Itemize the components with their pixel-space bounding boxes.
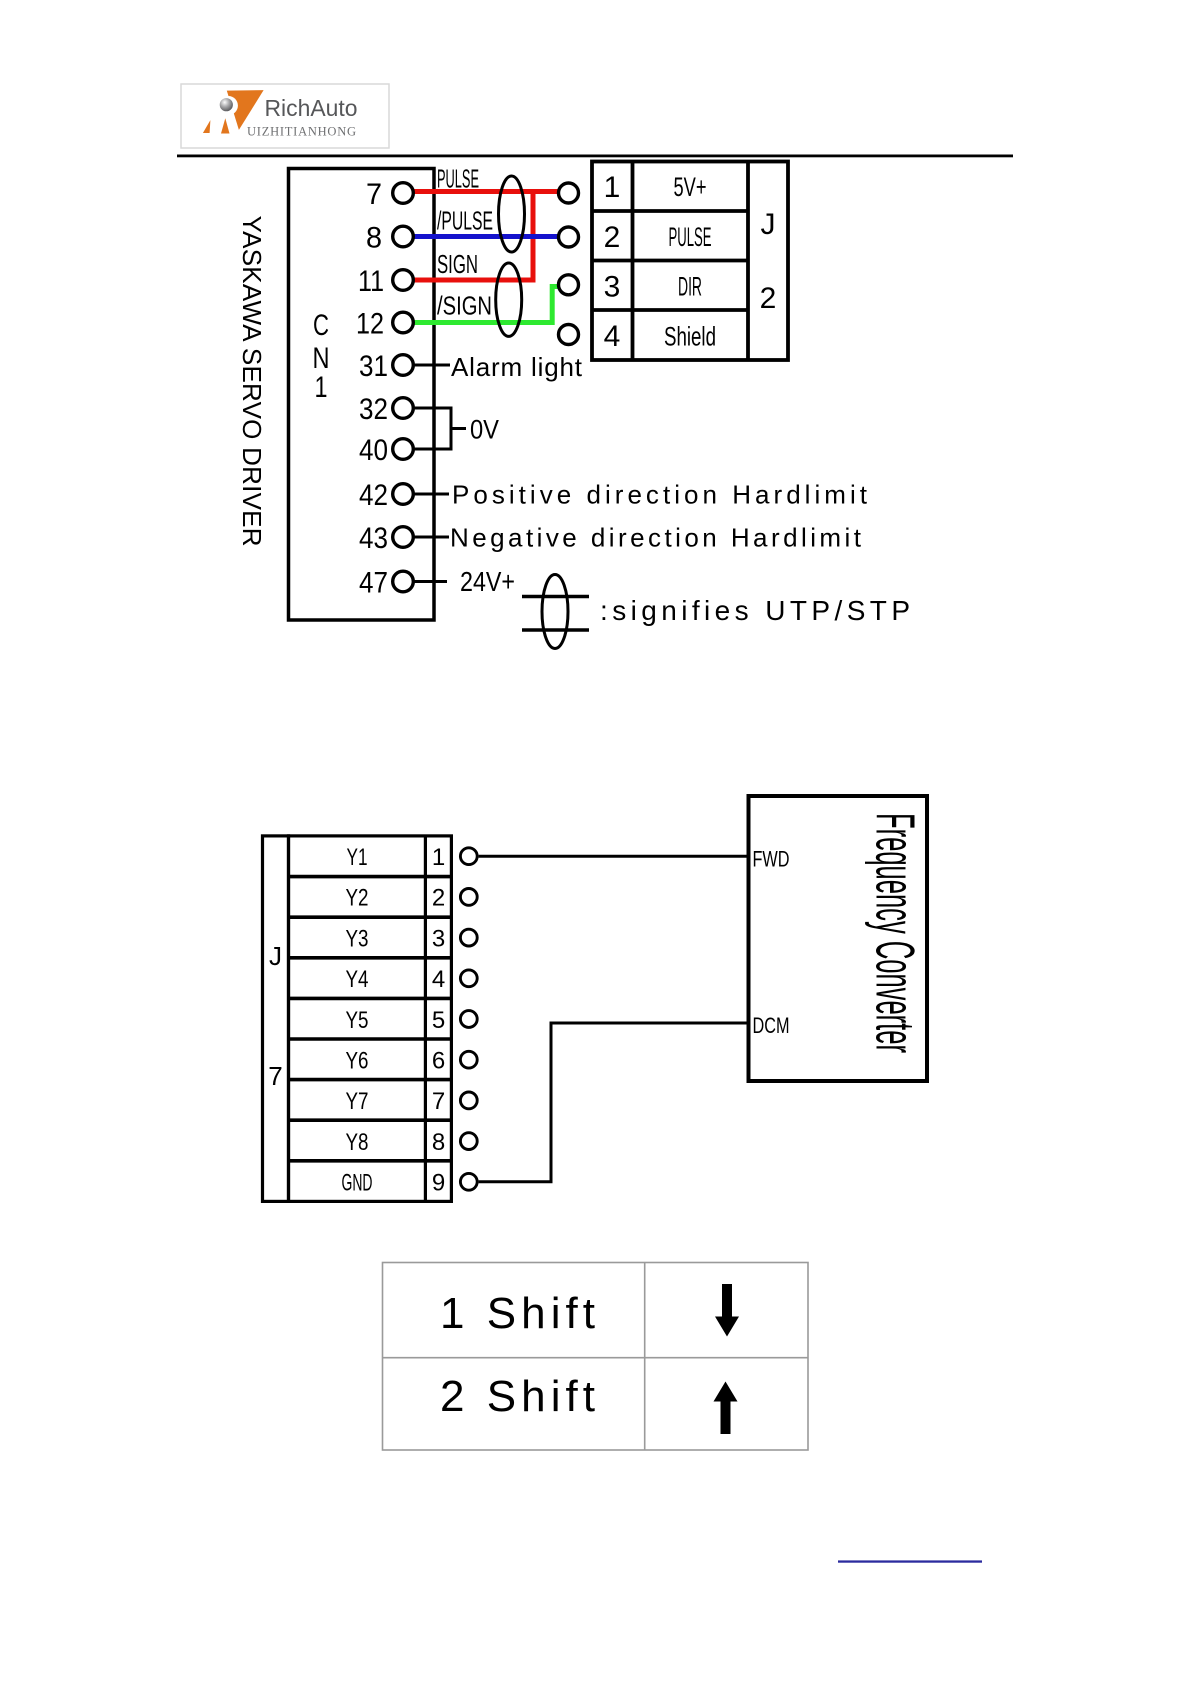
svg-text:Alarm light: Alarm light — [451, 352, 583, 382]
svg-text:1: 1 — [432, 844, 445, 871]
svg-text:31: 31 — [359, 350, 388, 383]
svg-text:8: 8 — [366, 222, 382, 255]
svg-text:42: 42 — [359, 479, 388, 512]
svg-text:J: J — [761, 208, 776, 241]
svg-text:12: 12 — [356, 308, 384, 341]
svg-text:9: 9 — [432, 1170, 445, 1197]
svg-text:Y1: Y1 — [347, 844, 368, 871]
svg-text:Y8: Y8 — [346, 1129, 369, 1156]
svg-text::signifies UTP/STP: :signifies UTP/STP — [600, 595, 910, 626]
svg-text:Y4: Y4 — [346, 966, 369, 993]
svg-text:Y5: Y5 — [346, 1007, 369, 1034]
svg-text:4: 4 — [432, 966, 445, 993]
svg-text:4: 4 — [604, 320, 621, 353]
svg-text:Y2: Y2 — [346, 885, 369, 912]
svg-text:2: 2 — [604, 221, 621, 254]
svg-text:43: 43 — [359, 522, 388, 555]
svg-text:/PULSE: /PULSE — [437, 208, 493, 236]
svg-text:11: 11 — [358, 265, 384, 298]
svg-text:3: 3 — [604, 271, 621, 304]
svg-text:40: 40 — [359, 434, 388, 467]
svg-text:0V: 0V — [470, 415, 499, 445]
svg-text:7: 7 — [268, 1061, 282, 1091]
svg-text:32: 32 — [359, 393, 388, 426]
svg-text:GND: GND — [342, 1170, 373, 1197]
svg-text:PULSE: PULSE — [437, 166, 479, 194]
svg-text:RichAuto: RichAuto — [265, 95, 358, 121]
svg-text:Y7: Y7 — [346, 1088, 369, 1115]
svg-text:7: 7 — [366, 178, 382, 211]
svg-text:Frequency Converter: Frequency Converter — [865, 813, 927, 1053]
svg-text:1: 1 — [315, 371, 328, 404]
svg-text:Negative direction Hardlimit: Negative direction Hardlimit — [450, 523, 862, 553]
svg-text:Y6: Y6 — [346, 1048, 369, 1075]
svg-text:PULSE: PULSE — [669, 222, 712, 252]
svg-text:/SIGN: /SIGN — [437, 293, 492, 321]
svg-text:FWD: FWD — [753, 847, 790, 872]
svg-text:7: 7 — [432, 1088, 445, 1115]
svg-text:6: 6 — [432, 1048, 445, 1075]
svg-text:1: 1 — [604, 171, 621, 204]
svg-text:Y3: Y3 — [346, 925, 369, 952]
svg-text:5: 5 — [432, 1007, 445, 1034]
svg-text:8: 8 — [432, 1129, 445, 1156]
svg-text:UIZHITIANHONG: UIZHITIANHONG — [247, 125, 356, 139]
svg-text:Shield: Shield — [664, 322, 716, 352]
svg-text:3: 3 — [432, 925, 445, 952]
svg-text:DCM: DCM — [753, 1013, 790, 1038]
svg-text:24V+: 24V+ — [460, 566, 515, 597]
svg-text:YASKAWA SERVO DRIVER: YASKAWA SERVO DRIVER — [237, 216, 267, 547]
svg-text:2: 2 — [760, 282, 777, 315]
svg-text:2: 2 — [432, 885, 445, 912]
svg-text:DIR: DIR — [678, 272, 702, 302]
svg-text:C: C — [313, 309, 329, 342]
svg-text:5V+: 5V+ — [674, 172, 707, 202]
svg-text:SIGN: SIGN — [437, 251, 478, 279]
svg-text:J: J — [269, 941, 282, 971]
svg-text:47: 47 — [359, 567, 388, 600]
